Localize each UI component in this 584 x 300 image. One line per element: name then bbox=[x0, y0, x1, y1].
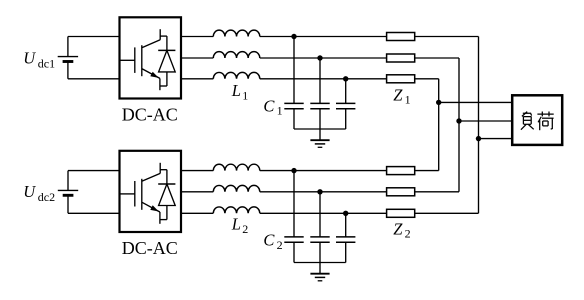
wire phase B1 L1 to bus bbox=[260, 57, 459, 59]
impedance Z1 phase B bbox=[387, 54, 415, 62]
wire Udc1 negative to DC-AC 1 bbox=[68, 78, 120, 80]
impedance Z2 phase A bbox=[387, 167, 415, 175]
impedance Z2 phase C bbox=[387, 209, 415, 217]
node B1 junction bbox=[317, 55, 322, 60]
capacitor C2 phase A bbox=[284, 171, 303, 263]
svg-text:2: 2 bbox=[405, 227, 411, 241]
wire phase C1 L1 to bus bbox=[260, 78, 439, 80]
node A2 junction bbox=[291, 168, 296, 173]
node C1 junction bbox=[343, 76, 348, 81]
wire phase A1 L1 to bus bbox=[260, 36, 479, 38]
svg-text:dc2: dc2 bbox=[38, 190, 55, 204]
impedance Z1 phase A bbox=[387, 33, 415, 41]
svg-text:L: L bbox=[231, 215, 241, 234]
impedance Z1 phase C bbox=[387, 75, 415, 83]
inductor L2 phase A bbox=[213, 164, 259, 170]
label Z1 bbox=[393, 86, 410, 107]
svg-text:U: U bbox=[23, 48, 36, 67]
wire phase C2 DC-AC2 to L2 bbox=[181, 212, 213, 214]
wire phase A1 DC-AC1 to L1 bbox=[181, 36, 213, 38]
transistor Q2 (IGBT) bbox=[121, 163, 167, 224]
node load tap 2 bbox=[456, 118, 461, 123]
capacitor C2 phase B bbox=[310, 192, 329, 263]
svg-text:C: C bbox=[263, 231, 275, 250]
battery Udc2 bbox=[58, 171, 78, 214]
node load tap 1 bbox=[436, 100, 441, 105]
svg-text:Z: Z bbox=[393, 86, 403, 105]
wire tap2 to load bbox=[459, 120, 513, 122]
svg-text:2: 2 bbox=[242, 222, 248, 236]
ground G1 bbox=[310, 129, 329, 147]
label L2 bbox=[231, 215, 248, 236]
bus wire phase C to load column (left) bbox=[438, 79, 440, 171]
capacitor C2 phase C bbox=[336, 213, 355, 262]
svg-text:U: U bbox=[23, 182, 36, 201]
node A1 junction bbox=[291, 34, 296, 39]
label Udc2 bbox=[23, 182, 55, 204]
wire phase B1 DC-AC1 to L1 bbox=[181, 57, 213, 59]
bus wire phase B to load column (middle) bbox=[458, 58, 460, 192]
capacitor C1 phase C bbox=[336, 79, 355, 129]
svg-text:1: 1 bbox=[242, 88, 248, 102]
svg-text:2: 2 bbox=[277, 238, 283, 252]
wire phase C2 L2 to bus bbox=[260, 212, 479, 214]
load label glyph "fu" (load char 1) bbox=[521, 112, 534, 130]
capacitor C1 phase A bbox=[284, 37, 303, 130]
label Udc1 bbox=[23, 48, 55, 70]
svg-text:DC-AC: DC-AC bbox=[122, 105, 178, 125]
wire Udc2 negative to DC-AC 2 bbox=[68, 212, 120, 214]
node B2 junction bbox=[317, 189, 322, 194]
inductor L2 phase B bbox=[213, 185, 259, 191]
svg-text:L: L bbox=[231, 81, 241, 100]
capacitor C1 phase B bbox=[310, 58, 329, 129]
label L1 bbox=[231, 81, 248, 102]
wire Udc1 positive to DC-AC 1 bbox=[68, 36, 120, 38]
inductor L1 phase A bbox=[213, 30, 259, 36]
svg-text:1: 1 bbox=[277, 104, 283, 118]
svg-text:Z: Z bbox=[393, 220, 403, 239]
inductor L2 phase C bbox=[213, 207, 259, 213]
impedance Z2 phase B bbox=[387, 188, 415, 196]
wire tap3 to load bbox=[479, 138, 513, 140]
load box (fu he) bbox=[512, 95, 562, 145]
bus wire phase A top to load column (right) bbox=[478, 37, 480, 214]
DC-AC converter 1 box bbox=[120, 17, 182, 98]
transistor Q1 (IGBT) bbox=[121, 29, 167, 90]
label C1 bbox=[263, 97, 282, 118]
svg-text:DC-AC: DC-AC bbox=[122, 238, 178, 258]
diode D1 (freewheel) bbox=[158, 36, 175, 86]
wire phase A2 L2 to bus bbox=[260, 170, 439, 172]
diode D2 (freewheel) bbox=[158, 170, 175, 220]
wire Udc2 positive to DC-AC 2 bbox=[68, 170, 120, 172]
node load tap 3 bbox=[476, 136, 481, 141]
DC-AC converter 2 box bbox=[120, 151, 182, 232]
inductor L1 phase B bbox=[213, 52, 259, 58]
wire phase C1 DC-AC1 to L1 bbox=[181, 78, 213, 80]
wire phase B2 DC-AC2 to L2 bbox=[181, 191, 213, 193]
wire C1 common bus bbox=[294, 128, 346, 130]
wire phase B2 L2 to bus bbox=[260, 191, 459, 193]
svg-text:C: C bbox=[263, 97, 275, 116]
svg-text:1: 1 bbox=[405, 93, 411, 107]
ground G2 bbox=[310, 263, 329, 281]
label Z2 bbox=[393, 220, 410, 241]
svg-text:dc1: dc1 bbox=[38, 57, 55, 71]
wire C2 common bus bbox=[294, 262, 346, 264]
label C2 bbox=[263, 231, 282, 252]
wire phase A2 DC-AC2 to L2 bbox=[181, 170, 213, 172]
inductor L1 phase C bbox=[213, 72, 259, 78]
node C2 junction bbox=[343, 211, 348, 216]
battery Udc1 bbox=[58, 37, 78, 79]
load label glyph "he" (load char 2) bbox=[537, 112, 553, 131]
wire tap1 to load bbox=[439, 101, 513, 103]
